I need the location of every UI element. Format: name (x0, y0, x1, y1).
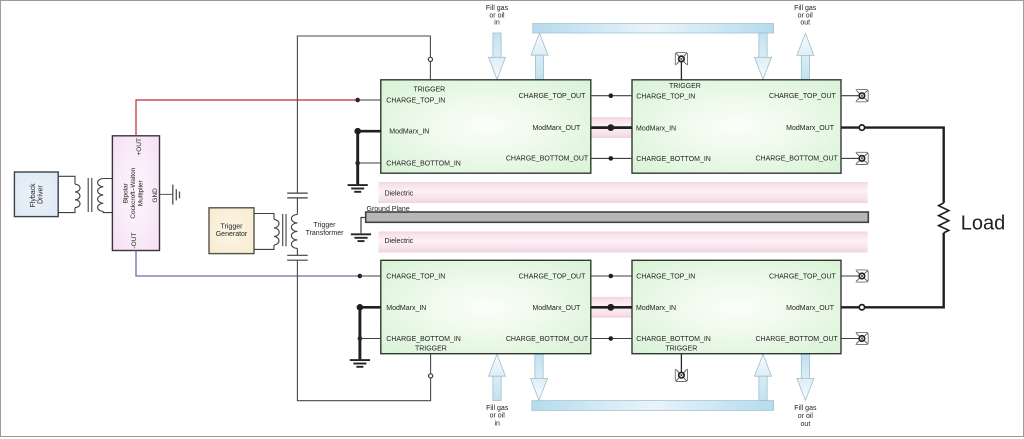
wire: trigger generator to T2 primary (254, 214, 274, 250)
svg-text:ModMarx_IN: ModMarx_IN (389, 129, 429, 136)
terminal: module2 trigger input (circled-x, open bottom) (675, 53, 687, 66)
terminal: m4 charge-bottom output (circled-x) (856, 332, 869, 344)
wire: m2 CHARGE_TOP_OUT stub (841, 95, 859, 97)
wire: terminal to module2 TRIGGER (680, 62, 682, 80)
dielectric slab (top) (379, 182, 868, 203)
wire: ground plane to earth (361, 218, 366, 234)
label: trigger transformer (306, 222, 345, 237)
wire: T2 secondary bottom to C2 (296, 248, 298, 255)
svg-text:Ground Plane: Ground Plane (367, 206, 410, 213)
arrow: fill gas out (top) (797, 33, 814, 79)
node: module3 ModMarx junction (357, 304, 364, 311)
svg-text:CHARGE_BOTTOM_IN: CHARGE_BOTTOM_IN (386, 160, 461, 167)
wire: m1 ModMarx_OUT to m2 ModMarx_IN (thick) (591, 126, 632, 129)
wire: module1 ground bus (thick) (356, 131, 359, 184)
terminal: m4 charge-top output (circled-x) (856, 270, 869, 282)
svg-text:CHARGE_BOTTOM_OUT: CHARGE_BOTTOM_OUT (506, 156, 589, 163)
svg-text:Load: Load (961, 213, 1006, 235)
label: fill gas out (top) (794, 5, 817, 27)
marx module 2 (top right) (632, 80, 841, 173)
node: module3 charge-bottom junction (358, 336, 363, 341)
svg-text:Dielectric: Dielectric (385, 238, 414, 245)
wire: multiplier GND stub (160, 193, 173, 195)
svg-text:CHARGE_TOP_OUT: CHARGE_TOP_OUT (769, 93, 836, 100)
svg-text:CHARGE_TOP_OUT: CHARGE_TOP_OUT (769, 274, 836, 281)
svg-text:Generator: Generator (216, 231, 248, 238)
svg-text:out: out (800, 20, 810, 27)
wire: load to m4 ModMarx_OUT (thick) (841, 233, 944, 307)
wire: m4 CHARGE_TOP_OUT stub (841, 275, 859, 277)
gas manifold pipe (top) (533, 24, 774, 34)
wire: junction to module1 CHARGE_TOP_IN (358, 99, 381, 101)
svg-text:Bipolar: Bipolar (123, 182, 130, 203)
transformer T2 (trigger) (274, 214, 297, 248)
arrow: fill gas in (bottom) (489, 354, 506, 400)
node: junction top charge-top (609, 93, 614, 98)
svg-text:GND: GND (152, 188, 159, 203)
node: junction bottom charge-bottom (609, 336, 614, 341)
ground plane (366, 206, 869, 223)
marx module 3 (bottom left) (381, 260, 591, 353)
svg-text:+OUT: +OUT (136, 138, 143, 156)
svg-text:in: in (494, 420, 500, 427)
svg-text:Dielectric: Dielectric (385, 191, 414, 198)
node: junction top charge-bottom (609, 156, 614, 161)
node: module1 charge-top junction (355, 98, 360, 103)
gas manifold pipe (bottom) (532, 401, 774, 411)
capacitor C2 (287, 255, 308, 260)
flyback driver (14, 172, 58, 217)
terminal: m2 charge-bottom output (circled-x) (856, 152, 869, 164)
node: module1 ModMarx junction (354, 128, 361, 135)
wire: module3 ground bus (thick) (358, 307, 361, 359)
wire: +OUT to top charge bus (red) (136, 100, 358, 136)
wire: -OUT to bottom charge bus (purple) (136, 251, 360, 277)
wire: terminal to module1 TRIGGER (429, 62, 431, 80)
marx module 1 (top left) (381, 80, 591, 173)
svg-text:Fill gas: Fill gas (486, 405, 509, 412)
svg-text:Multiplier: Multiplier (138, 179, 145, 206)
bipolar cockcroft-walton multiplier (112, 136, 159, 251)
svg-text:CHARGE_BOTTOM_IN: CHARGE_BOTTOM_IN (636, 336, 711, 343)
wire: m3 CHARGE_BOTTOM_OUT to m4 CHARGE_BOTTOM_IN (591, 338, 632, 340)
wire: m1 CHARGE_TOP_OUT to m2 CHARGE_TOP_IN (591, 95, 632, 97)
svg-text:CHARGE_TOP_IN: CHARGE_TOP_IN (386, 274, 445, 281)
svg-text:out: out (801, 421, 811, 428)
svg-text:CHARGE_TOP_IN: CHARGE_TOP_IN (636, 94, 695, 101)
svg-text:Transformer: Transformer (306, 230, 345, 237)
wire: module1 ModMarx_IN stub (thick) (358, 130, 381, 133)
arrow: module1 to pipe (top) (531, 33, 548, 79)
svg-text:Fill gas: Fill gas (794, 405, 817, 412)
svg-text:ModMarx_IN: ModMarx_IN (636, 305, 676, 312)
wire: T2 secondary top to C1 (296, 198, 298, 215)
node: module1 charge-bottom junction (355, 161, 360, 166)
svg-text:ModMarx_OUT: ModMarx_OUT (786, 125, 835, 132)
svg-text:Fill gas: Fill gas (486, 5, 509, 12)
dielectric slab (bottom) (379, 232, 868, 253)
arrow: pipe to module4 (bottom) (755, 354, 772, 400)
svg-text:Trigger: Trigger (314, 222, 337, 229)
terminal: m2 charge-top output (circled-x) (856, 90, 869, 102)
svg-text:ModMarx_OUT: ModMarx_OUT (532, 305, 581, 312)
node: m2 output feedthrough (open ring) (859, 125, 864, 130)
svg-text:CHARGE_TOP_OUT: CHARGE_TOP_OUT (519, 93, 586, 100)
wire: m3 ModMarx_OUT to m4 ModMarx_IN (thick) (591, 306, 632, 309)
arrow: module3 to pipe (bottom) (531, 354, 548, 400)
terminal: module4 trigger input (circled-x, open top) (675, 369, 687, 382)
wire: m3 CHARGE_TOP_OUT to m4 CHARGE_TOP_IN (591, 275, 632, 277)
wire: flyback driver to T1 primary (58, 176, 75, 212)
wire: module3 ModMarx_IN stub (thick) (360, 306, 381, 309)
node: junction bottom charge-top (609, 274, 614, 279)
svg-text:TRIGGER: TRIGGER (413, 86, 445, 93)
svg-text:CHARGE_TOP_IN: CHARGE_TOP_IN (386, 97, 445, 104)
label: fill gas in (top) (486, 5, 509, 27)
svg-text:ModMarx_IN: ModMarx_IN (386, 305, 426, 312)
wire: junction to module1 CHARGE_BOTTOM_IN (358, 162, 381, 164)
svg-text:or oil: or oil (490, 413, 506, 420)
arrow: pipe to module2 (top) (755, 33, 772, 79)
svg-text:Fill gas: Fill gas (794, 5, 817, 12)
node: m4 output feedthrough (open ring) (859, 305, 864, 310)
ground: module3 charging return (350, 360, 370, 367)
marx module 4 (bottom right) (632, 260, 841, 353)
wire: m2 CHARGE_BOTTOM_OUT stub (841, 157, 859, 159)
label: fill gas in (bottom) (486, 405, 509, 428)
svg-text:Flyback: Flyback (30, 183, 37, 208)
wire: junction to module3 CHARGE_TOP_IN (360, 275, 381, 277)
svg-text:in: in (494, 20, 500, 27)
ground: module1 charging return (348, 185, 368, 192)
wire: trigger loop bottom (297, 260, 430, 401)
svg-text:CHARGE_TOP_IN: CHARGE_TOP_IN (636, 274, 695, 281)
wire: trigger loop top (297, 36, 430, 193)
svg-text:CHARGE_BOTTOM_IN: CHARGE_BOTTOM_IN (636, 156, 711, 163)
ground: multiplier GND (173, 185, 180, 205)
svg-text:-OUT: -OUT (131, 233, 138, 249)
trigger generator (209, 208, 254, 254)
wire: m1 CHARGE_BOTTOM_OUT to m2 CHARGE_BOTTOM_IN (591, 157, 632, 159)
node: junction bottom ModMarx (607, 304, 614, 311)
ground: ground plane earth (351, 234, 371, 241)
svg-text:CHARGE_TOP_OUT: CHARGE_TOP_OUT (519, 274, 586, 281)
wire: junction to module3 CHARGE_BOTTOM_IN (360, 338, 381, 340)
svg-text:Cockcroft–Walton: Cockcroft–Walton (130, 167, 137, 218)
svg-text:TRIGGER: TRIGGER (669, 83, 701, 90)
svg-text:CHARGE_BOTTOM_OUT: CHARGE_BOTTOM_OUT (755, 336, 838, 343)
wire: T1 secondary to multiplier (103, 179, 112, 213)
svg-text:ModMarx_OUT: ModMarx_OUT (786, 305, 835, 312)
svg-text:CHARGE_BOTTOM_IN: CHARGE_BOTTOM_IN (386, 336, 461, 343)
node: trigger terminal top (open circle) (428, 57, 432, 61)
svg-text:or oil: or oil (798, 413, 814, 420)
node: module3 charge-top junction (358, 274, 363, 279)
svg-text:CHARGE_BOTTOM_OUT: CHARGE_BOTTOM_OUT (755, 156, 838, 163)
svg-text:or oil: or oil (489, 12, 505, 19)
wire: module4 TRIGGER to terminal (680, 354, 682, 373)
arrow: fill gas in (top) (489, 33, 506, 79)
wire: terminal to module3 TRIGGER (430, 354, 432, 374)
arrow: fill gas out (bottom) (797, 354, 814, 400)
svg-text:CHARGE_BOTTOM_OUT: CHARGE_BOTTOM_OUT (506, 336, 589, 343)
node: junction top ModMarx (607, 124, 614, 131)
svg-text:or oil: or oil (798, 12, 814, 19)
svg-text:ModMarx_IN: ModMarx_IN (636, 125, 676, 132)
label: fill gas out (bottom) (794, 405, 817, 428)
wire: m4 CHARGE_BOTTOM_OUT stub (841, 338, 859, 340)
wire: m2 ModMarx_OUT to load (thick) (841, 128, 944, 203)
node: trigger terminal bottom (open circle) (429, 374, 433, 378)
svg-text:TRIGGER: TRIGGER (665, 345, 697, 352)
capacitor C1 (287, 193, 308, 198)
svg-text:ModMarx_OUT: ModMarx_OUT (532, 125, 581, 132)
bushing: top ModMarx feedthrough (591, 117, 632, 138)
bushing: bottom ModMarx feedthrough (591, 297, 632, 318)
transformer T1 (flyback) (75, 178, 103, 212)
svg-text:Driver: Driver (37, 185, 44, 204)
resistor: Load (939, 203, 949, 233)
svg-text:TRIGGER: TRIGGER (415, 345, 447, 352)
svg-text:Trigger: Trigger (221, 223, 244, 230)
